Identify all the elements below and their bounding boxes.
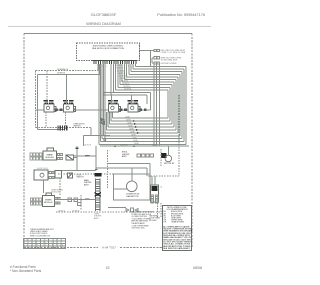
svg-text:16 BK 16: 16 BK 16	[58, 211, 65, 213]
svg-text:MODULE: MODULE	[52, 192, 60, 194]
valve BROIL top pins	[65, 103, 67, 105]
convection housing outline	[114, 174, 151, 200]
DSI motor circle	[165, 155, 172, 162]
svg-text:CONN. TO L1 SIDE OF LINE: CONN. TO L1 SIDE OF LINE	[161, 52, 186, 54]
wire from spark switch down	[76, 146, 78, 170]
wire pin1 to left rail	[36, 64, 101, 129]
dashed riser x179	[178, 95, 180, 176]
DSI resistor chain	[137, 154, 154, 157]
svg-text:GLGF386DSF: GLGF386DSF	[91, 12, 117, 17]
svg-text:MOTOR 1B: MOTOR 1B	[164, 163, 175, 165]
DSI module dark box	[161, 153, 167, 158]
svg-text:14: 14	[35, 239, 37, 241]
drop wire to broil valve	[66, 74, 68, 104]
lower module plugs	[55, 197, 60, 203]
relay component box	[150, 185, 158, 202]
svg-text:ORANGE WIRE: ORANGE WIRE	[171, 221, 185, 224]
spark module box	[43, 151, 56, 160]
valve LT SURF label	[108, 100, 118, 104]
spark module connector grid	[30, 153, 42, 160]
wire from pin 9 nested return	[115, 64, 117, 90]
wire from pin 16 nested return	[130, 64, 132, 72]
svg-text:BK: BK	[35, 242, 37, 244]
spark switch component	[66, 155, 74, 160]
bake igniter label	[84, 179, 92, 186]
svg-text:20: 20	[60, 239, 62, 241]
side notes text	[149, 216, 160, 222]
door switch connector hatch	[58, 126, 67, 131]
wire from pin 18 nested return	[134, 64, 136, 66]
wire labels on cascade	[115, 65, 131, 90]
plug symbol J2	[154, 57, 156, 59]
lower dashed rail	[56, 211, 162, 213]
dashed riser x161	[160, 149, 162, 166]
EOC connector pins P1..P20	[94, 61, 136, 65]
svg-text:* Non-Illustrated Parts: * Non-Illustrated Parts	[10, 269, 42, 273]
valve BROIL label	[63, 100, 73, 104]
svg-text:TO NEUTRAL SIDE: TO NEUTRAL SIDE	[161, 59, 179, 62]
svg-text:18: 18	[52, 239, 54, 241]
wire lower module row	[60, 199, 96, 201]
wire into convection connectors	[108, 207, 126, 209]
svg-text:AT RIGHT: AT RIGHT	[149, 219, 157, 222]
dashed drop left of ladder	[59, 178, 61, 195]
drop wire to surface valve 1	[111, 95, 113, 104]
drop wire to bake valve	[46, 71, 48, 105]
plug symbol J1	[154, 49, 159, 64]
lower spark module box	[42, 195, 54, 206]
convection motor circle	[127, 181, 138, 192]
wire from pin 17 nested return	[132, 64, 134, 69]
wire from pin 14 nested return	[126, 64, 128, 77]
lower connector grid	[30, 198, 41, 205]
drop wire to surface valve 2	[130, 95, 132, 104]
wire lock row to igniter	[61, 170, 95, 172]
svg-text:GN: GN	[35, 247, 37, 249]
wire gauge table	[24, 239, 66, 249]
wire spark row to igniter riser	[74, 155, 96, 157]
svg-text:16 GY 16: 16 GY 16	[84, 145, 91, 147]
dashed wires to legend area	[157, 203, 159, 217]
wire tick labels near ladder	[85, 199, 90, 201]
svg-text:16 WH 16: 16 WH 16	[120, 145, 128, 147]
valve BAKE top pins	[46, 103, 48, 105]
svg-text:ASSY: ASSY	[122, 155, 128, 158]
svg-text:SWITCH: SWITCH	[77, 177, 85, 179]
DSI feed wire	[100, 145, 189, 147]
svg-text:YL: YL	[44, 247, 46, 249]
spark module output plugs	[57, 153, 62, 159]
header rule	[8, 26, 211, 28]
svg-text:WIRE COLORS BELOW: WIRE COLORS BELOW	[30, 235, 50, 237]
svg-text:MODULE: MODULE	[45, 157, 54, 159]
wire pin2 to left rail	[99, 64, 101, 74]
svg-text:GN: GN	[60, 244, 62, 246]
wire from pin 11 nested return	[119, 64, 121, 85]
svg-text:A-04 T017: A-04 T017	[102, 246, 116, 250]
svg-text:SEE NOTE 4 FOR CONNECTION: SEE NOTE 4 FOR CONNECTION	[92, 48, 124, 50]
svg-text:ASSY: ASSY	[94, 217, 100, 220]
svg-text:ONLY 600V 105C: ONLY 600V 105C	[131, 228, 145, 230]
junction dots valve feed lines	[111, 94, 112, 95]
oven door switch wire pair	[36, 128, 110, 147]
svg-text:15: 15	[106, 266, 110, 270]
svg-text:ASSY: ASSY	[84, 183, 90, 186]
fuse symbols above legend	[151, 195, 158, 203]
svg-text:FAN MOTOR: FAN MOTOR	[127, 195, 139, 198]
svg-text:BU: BU	[52, 244, 54, 246]
gas valve RT SURF	[128, 104, 138, 112]
valve LT SURF top pins	[110, 103, 112, 105]
svg-text:MODULE: MODULE	[44, 202, 53, 204]
surface igniter symbol	[139, 108, 146, 111]
wire from pin 15 nested return	[128, 64, 130, 74]
svg-text:SWITCH: SWITCH	[73, 126, 81, 128]
chassis dashed line	[58, 173, 148, 175]
plug J1 label	[161, 49, 187, 65]
svg-text:N: N	[27, 244, 28, 246]
diagram border frame	[24, 34, 192, 248]
valve RT SURF label	[128, 100, 138, 104]
svg-text:YL: YL	[60, 242, 62, 244]
small comps right of lower module	[68, 198, 81, 206]
pin number marks	[98, 66, 135, 68]
electronic oven control (EOC) box	[77, 43, 140, 60]
gas valve LT SURF	[108, 104, 118, 112]
svg-text:GY: GY	[43, 244, 45, 246]
dashed vertical right of ladder	[107, 150, 109, 189]
svg-text:16: 16	[44, 239, 46, 241]
middle notes text	[131, 211, 154, 230]
svg-text:14 WH 14: 14 WH 14	[57, 73, 65, 75]
lock switch label	[77, 175, 85, 179]
wire labels on returns	[125, 117, 139, 146]
igniter top connector knot	[94, 173, 101, 177]
door lock plugs	[49, 172, 54, 179]
connector drops from top plugs	[154, 64, 159, 146]
latch contacts	[67, 173, 72, 178]
wire down from spark area	[95, 146, 97, 170]
svg-text:L1: L1	[27, 242, 29, 244]
wire from pin 7 to valve feeds	[110, 64, 112, 95]
table cell text	[27, 239, 63, 248]
svg-text:16 OR 16: 16 OR 16	[124, 89, 131, 91]
svg-text:SEE SERVICE DATA SHEET: SEE SERVICE DATA SHEET	[163, 247, 190, 250]
igniter bottom label	[94, 214, 102, 220]
junction dots on DSI feed	[114, 146, 115, 147]
connector arrow specks on return lines	[133, 120, 139, 134]
svg-text:WH: WH	[35, 244, 38, 246]
wire into junction circle	[104, 130, 106, 139]
svg-text:TN: TN	[60, 247, 62, 249]
wire door lock to lower module	[43, 180, 45, 193]
svg-text:16 WH 16: 16 WH 16	[72, 211, 80, 213]
svg-text:Publication No: 5995447176: Publication No: 5995447176	[157, 13, 205, 17]
valve RT SURF top pins	[130, 103, 132, 105]
svg-text:GROUND SCREW: GROUND SCREW	[161, 63, 177, 65]
svg-text:WIRING DIAGRAM: WIRING DIAGRAM	[86, 21, 121, 26]
svg-text:08/08: 08/08	[193, 266, 202, 270]
igniter mid connector knot	[95, 193, 102, 197]
inline connector on left drop wire	[101, 118, 104, 124]
table heading notes	[30, 228, 55, 237]
lower right link wires	[96, 164, 150, 177]
oven valve row supply wire	[36, 109, 151, 111]
connector feed line to top-right plugs	[140, 51, 155, 67]
wire cascade from EOC pins to right-side bundle	[99, 64, 186, 144]
gas valve BAKE	[44, 104, 54, 112]
door lock motor box	[34, 170, 48, 180]
valve BAKE label	[44, 100, 54, 104]
wire from pin 13 nested return	[123, 64, 125, 79]
wire from pin 12 nested return	[121, 64, 123, 82]
wire from pin 10 nested return	[117, 64, 119, 87]
plug symbol J3	[154, 62, 156, 64]
bake igniter heater ladder	[96, 179, 101, 211]
convection connectors	[126, 208, 138, 212]
dashed vertical x81	[80, 195, 82, 210]
broil igniter label	[122, 152, 130, 158]
gas valve BROIL	[64, 104, 74, 112]
wire from pin 8 to valve feeds	[112, 64, 114, 92]
surface igniter symbol	[55, 108, 62, 111]
wire riser from convection motor	[131, 168, 133, 181]
valve box drop wires	[45, 112, 47, 128]
surface igniter symbol	[120, 108, 127, 111]
junction dots on valve wire	[57, 109, 58, 110]
junction circle on bus	[104, 139, 106, 141]
svg-text:14 WH-BK 14: 14 WH-BK 14	[57, 69, 68, 71]
latch switch box	[55, 171, 61, 179]
wire color code legend box	[162, 205, 191, 250]
EOC connector strip edge	[92, 60, 138, 62]
